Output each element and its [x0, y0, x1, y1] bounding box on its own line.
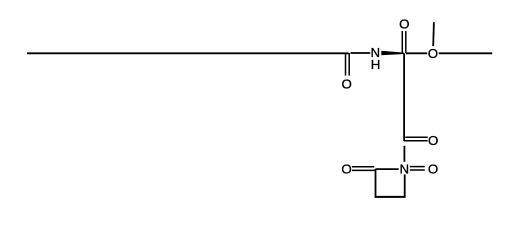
wire: stereocenter to ester O bond [406, 52, 427, 54]
wedge bond N to stereocenter [381, 51, 404, 55]
ester C=O double bond [402, 31, 406, 53]
svg-text:O: O [428, 133, 438, 148]
svg-text:O: O [428, 161, 438, 176]
svg-text:H: H [371, 57, 381, 72]
wire: ring top edge bond [375, 168, 398, 170]
wire: ring left edge bond [375, 169, 377, 197]
ketone C=O double bond [404, 137, 428, 140]
svg-text:O: O [342, 76, 352, 91]
wire: methyl bond on ester O [432, 22, 435, 46]
N-oxide N=O double bond [410, 167, 425, 170]
amide C=O double bond [346, 53, 350, 76]
ring C=O double bond [352, 167, 376, 171]
svg-text:O: O [341, 162, 351, 177]
svg-text:O: O [428, 46, 438, 61]
wire: carbonyl C to amide N bond [351, 52, 371, 54]
wire: ring bottom edge bond [375, 196, 406, 198]
wire: ester O to right chain bond [439, 52, 493, 54]
wire: ketone C to ring N bond [403, 146, 405, 162]
wire: stereocenter down-chain bond [403, 53, 405, 141]
wire: ring right edge bond [404, 174, 406, 197]
svg-text:N: N [399, 162, 409, 177]
wire: long alkyl chain bond [27, 52, 349, 54]
svg-text:O: O [399, 17, 409, 32]
